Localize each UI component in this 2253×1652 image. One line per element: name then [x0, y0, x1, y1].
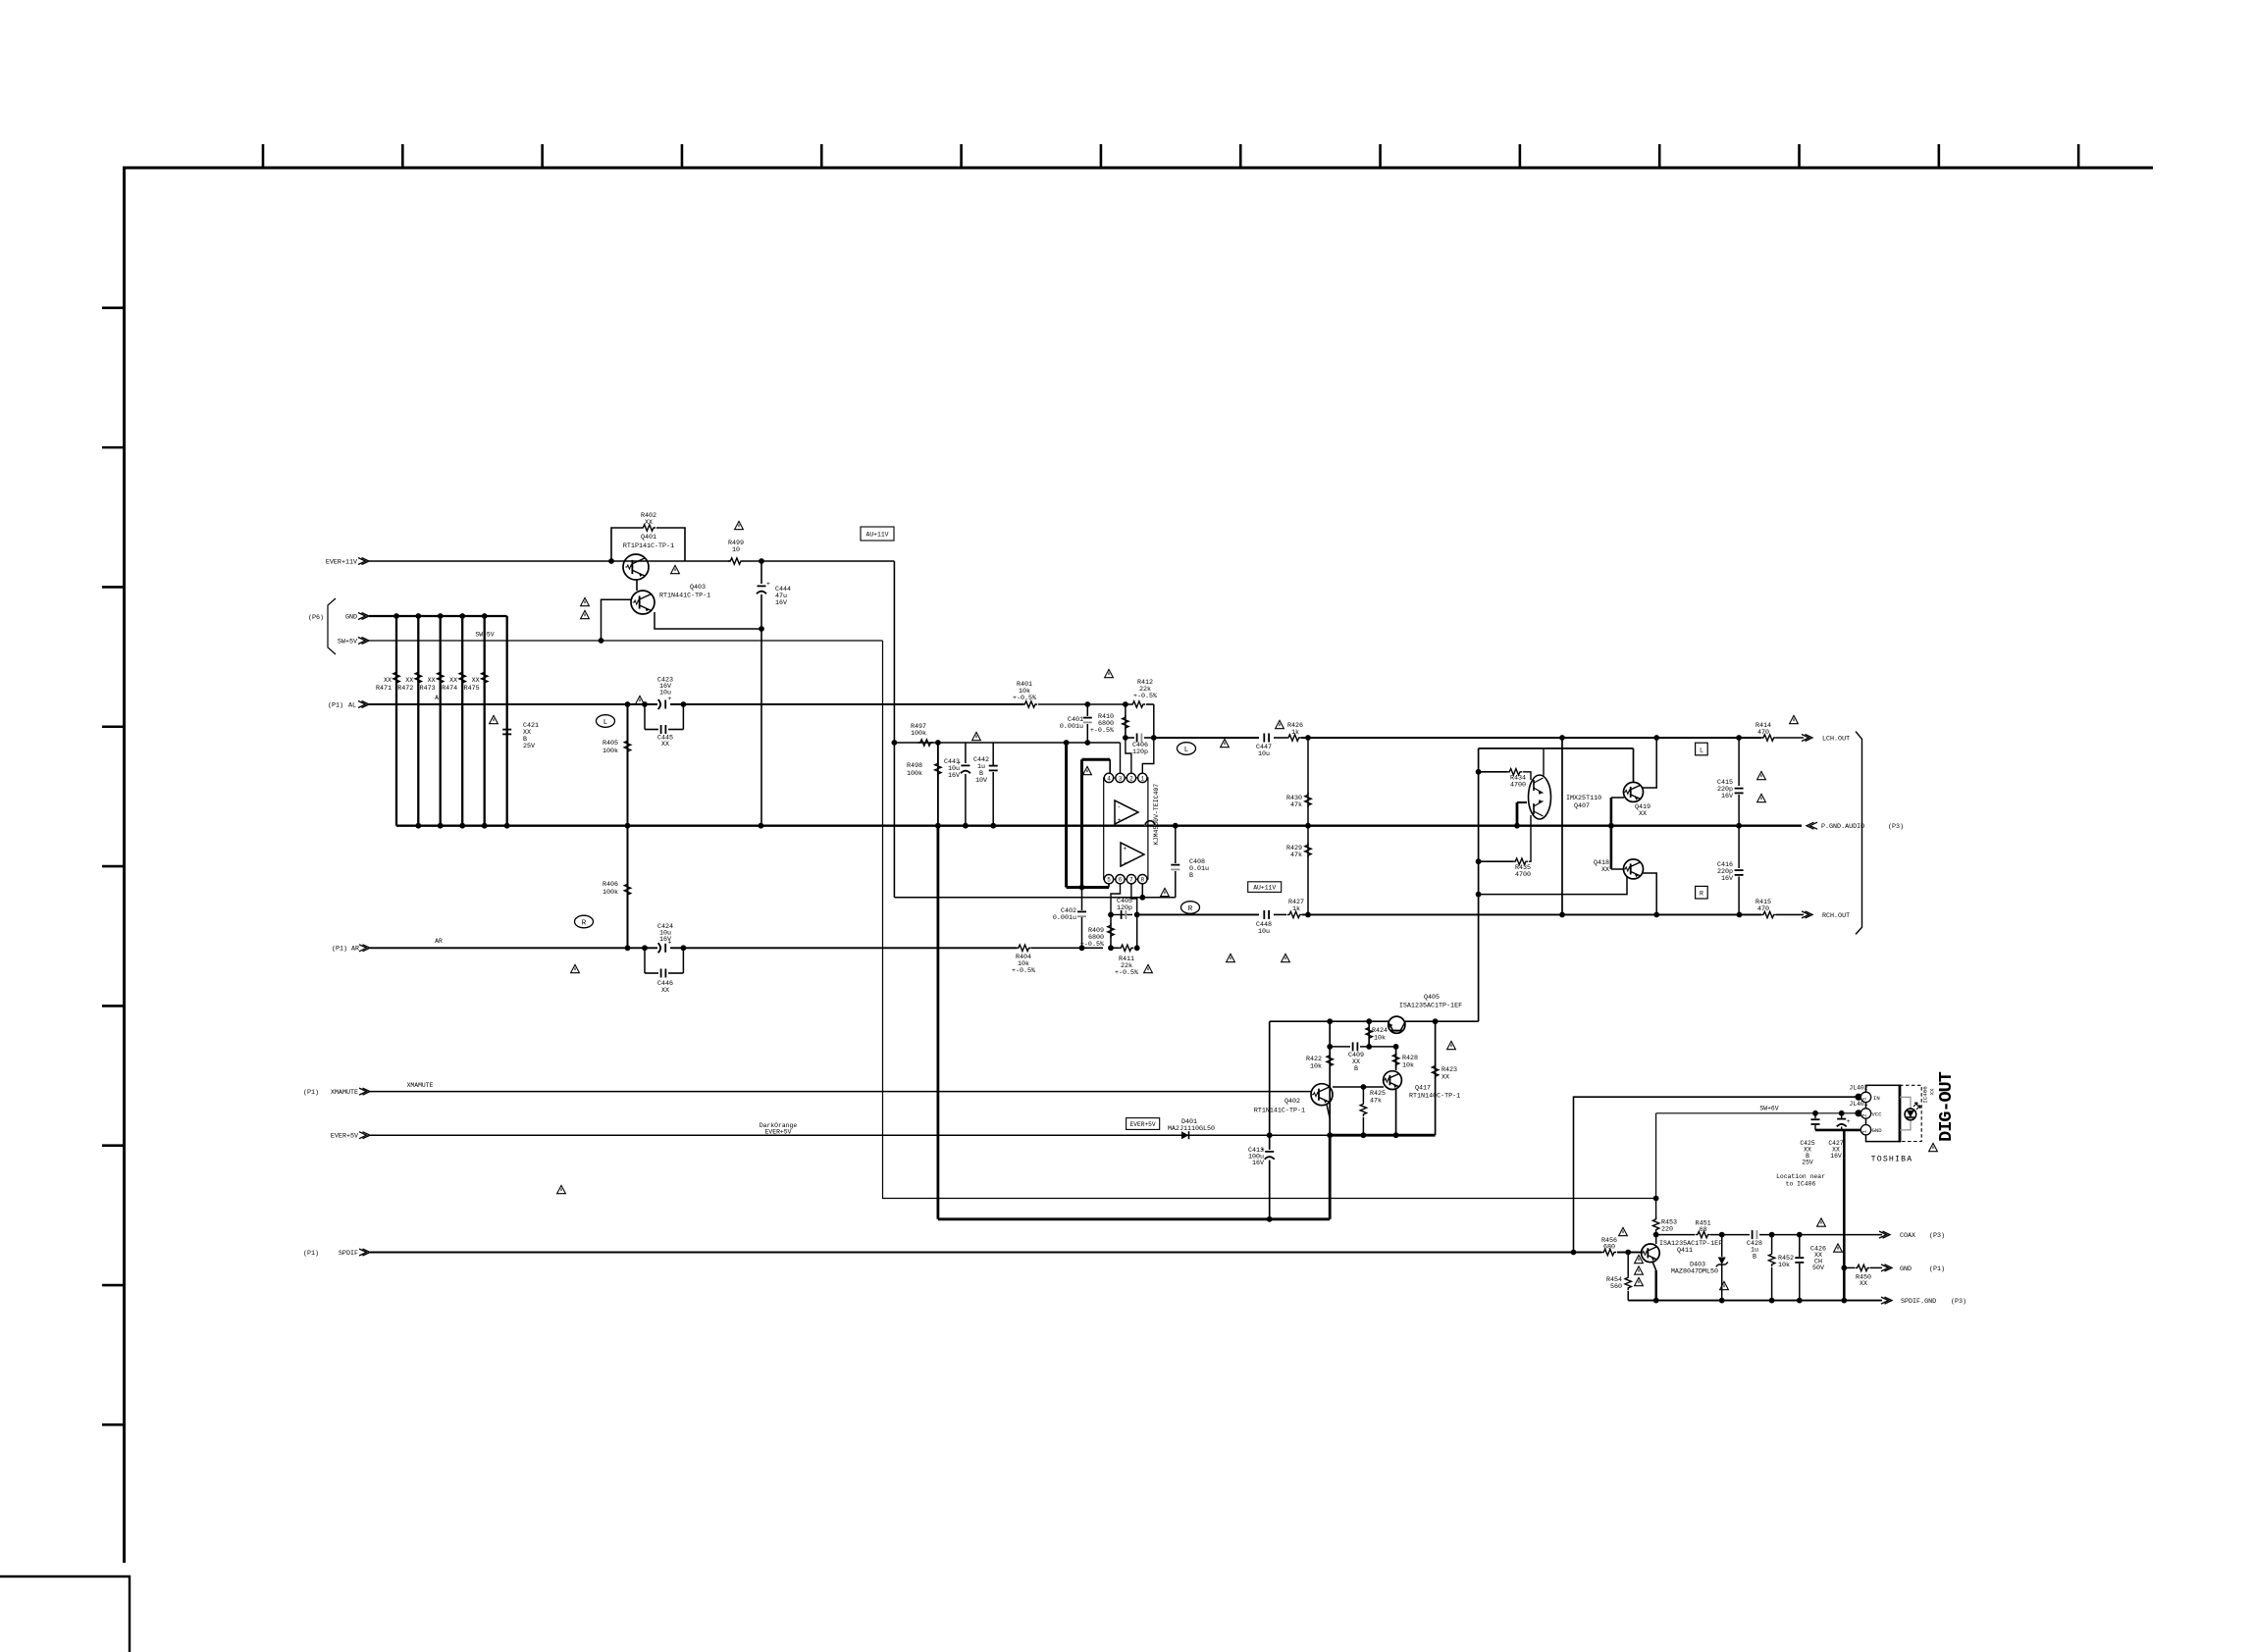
svg-text:10u: 10u — [1258, 928, 1270, 936]
svg-text:120p: 120p — [1117, 904, 1132, 912]
svg-text:EVER+5V: EVER+5V — [1130, 1121, 1156, 1128]
svg-text:R406: R406 — [603, 881, 618, 889]
svg-text:GND: GND — [345, 613, 357, 621]
svg-text:P.GND.AUDIO: P.GND.AUDIO — [1821, 823, 1864, 831]
svg-text:GND: GND — [1872, 1127, 1883, 1134]
svg-text:R: R — [582, 920, 587, 928]
svg-text:120p: 120p — [1132, 749, 1148, 756]
svg-text:(P1): (P1) — [328, 701, 343, 709]
svg-text:R471: R471 — [376, 685, 392, 693]
svg-text:(P1): (P1) — [303, 1250, 319, 1258]
svg-text:16V: 16V — [1721, 875, 1733, 883]
svg-text:Q411: Q411 — [1677, 1247, 1693, 1255]
svg-text:100k: 100k — [603, 748, 618, 755]
svg-text:XX: XX — [472, 677, 480, 685]
svg-text:16V: 16V — [1830, 1153, 1842, 1160]
svg-text:3: 3 — [1119, 775, 1123, 782]
svg-text:VCC: VCC — [1872, 1111, 1883, 1118]
svg-text:XX: XX — [1929, 1088, 1936, 1095]
svg-text:XX: XX — [405, 677, 413, 685]
svg-text:1k: 1k — [1292, 905, 1300, 913]
svg-text:R474: R474 — [442, 685, 457, 693]
svg-text:+-0.5%: +-0.5% — [1115, 969, 1139, 977]
svg-text:+-0.5%: +-0.5% — [1012, 967, 1036, 975]
svg-text:4: 4 — [1107, 775, 1111, 782]
svg-text:IC406: IC406 — [1922, 1086, 1929, 1104]
svg-text:B: B — [1189, 872, 1193, 880]
svg-text:(P1): (P1) — [303, 1089, 319, 1097]
svg-text:+-0.5%: +-0.5% — [1090, 727, 1115, 735]
svg-text:25V: 25V — [1802, 1160, 1813, 1166]
svg-text:R473: R473 — [420, 685, 436, 693]
svg-text:R475: R475 — [464, 685, 480, 693]
svg-text:AL: AL — [348, 701, 356, 709]
svg-text:10: 10 — [732, 546, 740, 554]
svg-text:68: 68 — [1700, 1226, 1707, 1234]
svg-text:L: L — [1184, 747, 1189, 754]
svg-text:COAX: COAX — [1900, 1232, 1915, 1240]
svg-text:2: 2 — [1862, 1113, 1868, 1116]
svg-text:50V: 50V — [1812, 1265, 1824, 1272]
svg-text:EVER+5V: EVER+5V — [331, 1133, 358, 1141]
svg-text:4700: 4700 — [1515, 871, 1531, 879]
svg-text:RT1N141C-TP-1: RT1N141C-TP-1 — [1254, 1108, 1305, 1115]
svg-text:R472: R472 — [397, 685, 413, 693]
svg-text:RT1P141C-TP-1: RT1P141C-TP-1 — [623, 542, 674, 550]
svg-text:(P1): (P1) — [1929, 1265, 1945, 1273]
svg-text:IMX25T110: IMX25T110 — [1566, 795, 1601, 802]
svg-text:5: 5 — [1107, 877, 1111, 884]
svg-text:R: R — [1700, 891, 1703, 898]
svg-text:EVER+11V: EVER+11V — [326, 558, 357, 566]
svg-text:Q403: Q403 — [690, 584, 706, 592]
svg-text:L: L — [603, 719, 608, 727]
svg-text:AU+11V: AU+11V — [1253, 885, 1276, 892]
svg-text:25V: 25V — [523, 743, 535, 750]
svg-text:10k: 10k — [1778, 1262, 1790, 1269]
svg-text:680: 680 — [1603, 1244, 1615, 1252]
svg-text:XX: XX — [661, 987, 669, 995]
svg-text:10V: 10V — [975, 777, 987, 785]
svg-text:+-0.5%: +-0.5% — [1013, 695, 1037, 702]
svg-text:TOSHIBA: TOSHIBA — [1871, 1156, 1913, 1164]
svg-text:560: 560 — [1610, 1283, 1622, 1291]
svg-text:XMAMUTE: XMAMUTE — [331, 1089, 358, 1097]
svg-text:XX: XX — [1860, 1280, 1867, 1288]
svg-text:L: L — [1700, 747, 1703, 753]
svg-text:470: 470 — [1757, 729, 1769, 737]
svg-text:(P1): (P1) — [332, 946, 347, 954]
svg-text:Q401: Q401 — [641, 534, 656, 542]
svg-text:10k: 10k — [1374, 1035, 1386, 1043]
svg-text:SW+6V: SW+6V — [1759, 1106, 1778, 1112]
svg-text:AU+11V: AU+11V — [865, 532, 888, 539]
svg-text:16V: 16V — [948, 772, 960, 780]
svg-text:(P3): (P3) — [1888, 823, 1904, 831]
svg-text:1k: 1k — [1291, 729, 1299, 737]
svg-text:XX: XX — [1441, 1074, 1449, 1082]
svg-text:B: B — [1753, 1253, 1756, 1261]
svg-text:XX: XX — [645, 519, 653, 527]
svg-text:B: B — [1354, 1065, 1358, 1073]
svg-text:+-0.5%: +-0.5% — [1133, 693, 1158, 700]
svg-text:10u: 10u — [1258, 750, 1270, 758]
svg-text:XX: XX — [384, 677, 392, 685]
svg-text:470: 470 — [1757, 905, 1769, 913]
svg-text:KJM4560V-TEIC407: KJM4560V-TEIC407 — [1153, 784, 1160, 846]
svg-text:EVER+5V: EVER+5V — [765, 1129, 792, 1136]
svg-text:AR: AR — [351, 946, 359, 954]
svg-text:XX: XX — [1639, 810, 1647, 818]
svg-text:10u: 10u — [659, 690, 671, 697]
svg-text:SPDIF: SPDIF — [339, 1250, 358, 1258]
svg-text:+: + — [1118, 817, 1122, 824]
svg-text:R405: R405 — [603, 740, 618, 748]
svg-text:100k: 100k — [907, 770, 922, 778]
svg-text:(P6): (P6) — [308, 614, 324, 622]
svg-text:10k: 10k — [1402, 1062, 1414, 1070]
svg-text:MAZ8047DML50: MAZ8047DML50 — [1671, 1268, 1718, 1276]
svg-text:+: + — [766, 581, 770, 588]
svg-text:16V: 16V — [1252, 1160, 1264, 1167]
svg-text:(P3): (P3) — [1929, 1232, 1945, 1240]
svg-text:4700: 4700 — [1510, 782, 1526, 790]
svg-text:1: 1 — [1862, 1130, 1868, 1133]
svg-text:-: - — [1124, 859, 1127, 866]
svg-text:AR: AR — [435, 938, 443, 945]
svg-text:100k: 100k — [911, 730, 926, 738]
svg-text:XX: XX — [428, 677, 436, 685]
svg-text:7: 7 — [1129, 877, 1133, 884]
svg-text:16V: 16V — [1721, 793, 1733, 800]
svg-text:RCH.OUT: RCH.OUT — [1822, 912, 1850, 920]
svg-text:Q402: Q402 — [1284, 1098, 1300, 1106]
svg-text:+: + — [1847, 1118, 1851, 1125]
svg-text:-: - — [1118, 803, 1122, 810]
svg-text:XMAMUTE: XMAMUTE — [407, 1082, 434, 1089]
svg-text:RT1N140C-TP-1: RT1N140C-TP-1 — [1409, 1093, 1460, 1101]
svg-text:10k: 10k — [1310, 1063, 1322, 1071]
svg-text:RT1N441C-TP-1: RT1N441C-TP-1 — [659, 593, 710, 600]
svg-text:(P3): (P3) — [1951, 1298, 1966, 1306]
svg-text:47k: 47k — [1290, 852, 1302, 859]
svg-text:XX: XX — [661, 741, 669, 749]
svg-text:16V: 16V — [659, 936, 671, 944]
svg-text:47k: 47k — [1370, 1098, 1382, 1106]
svg-text:XX: XX — [1601, 866, 1609, 874]
svg-text:DIG-OUT: DIG-OUT — [1936, 1071, 1957, 1142]
svg-text:MA2J1110GL50: MA2J1110GL50 — [1168, 1125, 1215, 1133]
svg-text:LCH.OUT: LCH.OUT — [1822, 736, 1850, 744]
svg-text:Q405: Q405 — [1424, 994, 1440, 1002]
svg-text:Location near: Location near — [1776, 1173, 1825, 1180]
svg-text:6: 6 — [1119, 877, 1123, 884]
svg-text:1: 1 — [1140, 775, 1144, 782]
svg-text:100k: 100k — [603, 889, 618, 897]
svg-text:47k: 47k — [1290, 801, 1302, 809]
svg-text:8: 8 — [1140, 877, 1144, 884]
svg-text:ISA1235AC1TP-1EF: ISA1235AC1TP-1EF — [1399, 1003, 1462, 1010]
svg-text:Q417: Q417 — [1415, 1085, 1431, 1093]
svg-text:GND: GND — [1900, 1265, 1912, 1273]
svg-text:SPDIF.GND: SPDIF.GND — [1901, 1298, 1936, 1306]
svg-text:220: 220 — [1661, 1226, 1673, 1234]
svg-text:2: 2 — [1129, 775, 1133, 782]
svg-text:16V: 16V — [775, 599, 787, 607]
svg-text:R498: R498 — [907, 762, 922, 770]
svg-text:to IC406: to IC406 — [1786, 1181, 1816, 1188]
svg-text:SW+5V: SW+5V — [338, 638, 357, 645]
svg-text:0.001u: 0.001u — [1060, 723, 1083, 731]
svg-text:0.001u: 0.001u — [1053, 914, 1076, 922]
svg-text:AL: AL — [435, 695, 443, 701]
svg-text:R: R — [1188, 905, 1193, 913]
svg-text:3: 3 — [1862, 1098, 1868, 1101]
svg-text:XX: XX — [449, 677, 457, 685]
svg-text:Q407: Q407 — [1574, 802, 1590, 810]
svg-text:IN: IN — [1873, 1095, 1880, 1102]
svg-text:+: + — [1124, 846, 1127, 852]
